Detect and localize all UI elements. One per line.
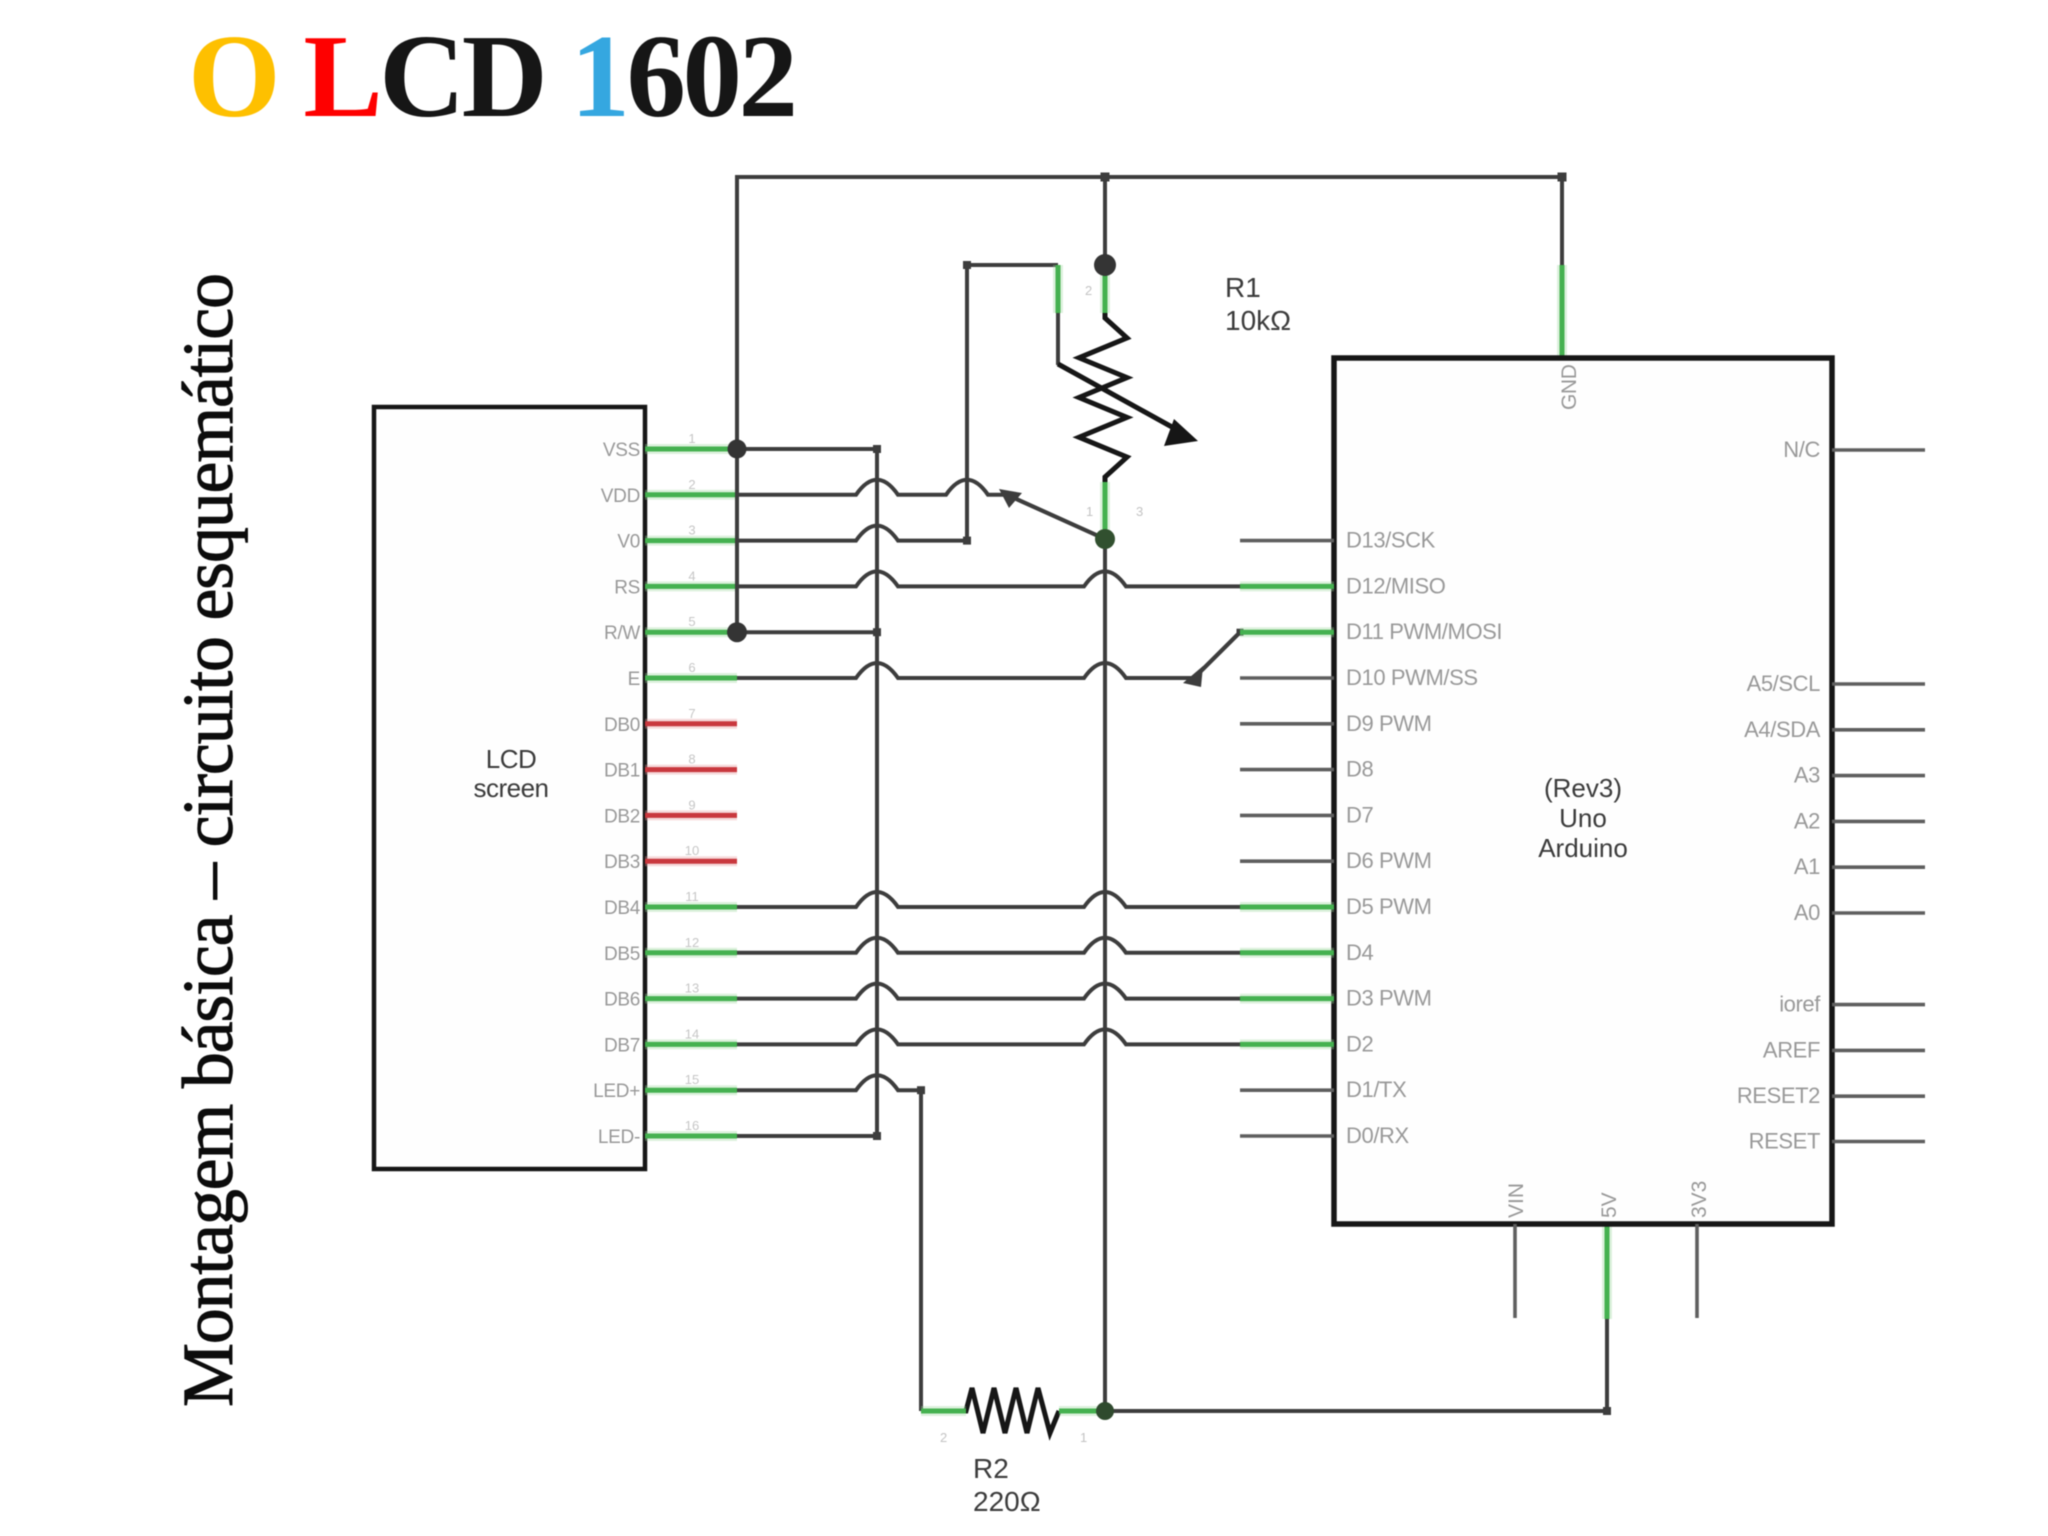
- svg-text:6: 6: [688, 660, 695, 675]
- wire: DB5 to D4 (hops both buses): [737, 938, 1240, 953]
- wire: Arduino GND stub riser (dark part): [1560, 177, 1564, 265]
- R1 pin numbers: [1085, 283, 1143, 519]
- junction: R2 right / 5V bus: [1096, 1402, 1114, 1420]
- net stub: Arduino GND pin (green): [1557, 265, 1567, 358]
- LCD pin 2 VDD (stub + label): [601, 477, 737, 507]
- svg-text:D0/RX: D0/RX: [1346, 1123, 1410, 1148]
- svg-text:1: 1: [1086, 504, 1093, 519]
- Arduino pin D9 PWM (left stub + label): [1240, 711, 1432, 736]
- svg-text:D11 PWM/MOSI: D11 PWM/MOSI: [1346, 619, 1502, 644]
- svg-text:D3 PWM: D3 PWM: [1346, 986, 1432, 1011]
- LCD pin 15 LED+ (stub + label): [593, 1072, 737, 1102]
- LCD pin 6 E (stub + label): [628, 660, 737, 690]
- Arduino pin ioref (right stub + label): [1779, 992, 1925, 1017]
- svg-text:9: 9: [688, 797, 695, 812]
- svg-text:2: 2: [688, 477, 695, 492]
- wire: pot R1 top to GND rail riser: [1103, 177, 1107, 265]
- LCD pin 8 DB1 (stub + label): [604, 752, 737, 782]
- wire: DB4 to D5 PWM (hops both buses): [737, 892, 1240, 907]
- R2 pin 1 stub (right, green): [1059, 1406, 1097, 1416]
- Arduino pin A1 (right stub + label): [1794, 854, 1925, 879]
- svg-text:VIN: VIN: [1505, 1183, 1528, 1218]
- svg-text:V0: V0: [617, 532, 640, 553]
- Arduino pin N/C (right stub + label): [1783, 437, 1925, 462]
- wire: R2 right junction to Arduino 5V pin: [1105, 1319, 1607, 1411]
- svg-text:Montagem básica – circuito esq: Montagem básica – circuito esquemático: [168, 273, 248, 1407]
- R1 wiper arrow: [1058, 364, 1198, 446]
- svg-text:LED-: LED-: [598, 1127, 640, 1148]
- svg-text:D2: D2: [1346, 1031, 1373, 1056]
- wire: GND vertical bus x=877: [875, 449, 879, 1136]
- svg-text:Arduino: Arduino: [1538, 833, 1628, 863]
- slide title "O LCD 1602": [188, 10, 798, 142]
- svg-text:DB6: DB6: [604, 990, 640, 1011]
- wire: E to D11 (hops both buses, diagonal jog up): [737, 632, 1240, 678]
- Arduino pin 3V3 (bottom stub + label): [1688, 1181, 1711, 1318]
- svg-text:10kΩ: 10kΩ: [1225, 305, 1291, 336]
- svg-text:3: 3: [688, 523, 695, 538]
- svg-text:VSS: VSS: [603, 440, 640, 461]
- svg-text:O LCD 1602: O LCD 1602: [188, 10, 798, 142]
- svg-text:D8: D8: [1346, 757, 1373, 782]
- svg-text:GND: GND: [1558, 364, 1581, 410]
- svg-text:D12/MISO: D12/MISO: [1346, 573, 1446, 598]
- wire: VDD to 5V node (hops GND bus and V0 riser): [737, 480, 1011, 495]
- net stub: Arduino 5V pin (green): [1602, 1224, 1612, 1319]
- junction: R/W / GND riser end: [727, 622, 747, 642]
- svg-text:DB0: DB0: [604, 715, 640, 736]
- LCD pin 13 DB6 (stub + label): [604, 981, 737, 1011]
- svg-text:2: 2: [1085, 283, 1092, 298]
- LCD pin 14 DB7 (stub + label): [604, 1026, 737, 1056]
- svg-text:R/W: R/W: [604, 623, 640, 644]
- wire: RS to D12/MISO (hops both buses): [737, 571, 1240, 586]
- potentiometer R1 10k body (zigzag): [1079, 311, 1127, 482]
- Arduino pin A2 (right stub + label): [1794, 808, 1925, 833]
- Arduino pin D5 PWM (left stub + label): [1240, 894, 1432, 919]
- wire: GND riser x=737 (VSS / R-W to top rail): [735, 175, 739, 632]
- svg-text:RESET2: RESET2: [1737, 1083, 1820, 1108]
- svg-text:DB7: DB7: [604, 1035, 640, 1056]
- Arduino pin D1/TX (left stub + label): [1240, 1077, 1407, 1102]
- svg-text:A5/SCL: A5/SCL: [1747, 671, 1821, 696]
- svg-text:DB1: DB1: [604, 761, 640, 782]
- Arduino pin D3 PWM (left stub + label): [1240, 986, 1432, 1011]
- svg-text:D4: D4: [1346, 940, 1373, 965]
- Arduino pin RESET2 (right stub + label): [1737, 1083, 1925, 1108]
- svg-text:D13/SCK: D13/SCK: [1346, 528, 1436, 553]
- svg-text:R2: R2: [973, 1453, 1009, 1484]
- svg-text:1: 1: [1080, 1430, 1087, 1445]
- wire: V0 to R1 wiper (hop GND bus, riser x=967, top run y=265): [737, 265, 1058, 541]
- svg-text:(Rev3): (Rev3): [1544, 773, 1622, 803]
- wire: 5V vertical bus x=1105 (R1 bottom to R2 right): [1103, 539, 1107, 1411]
- svg-text:screen: screen: [473, 773, 548, 803]
- svg-text:ioref: ioref: [1779, 992, 1821, 1017]
- svg-text:12: 12: [685, 935, 699, 950]
- LCD pin 12 DB5 (stub + label): [604, 935, 737, 965]
- Arduino pin D11 PWM/MOSI (left stub + label): [1240, 619, 1502, 644]
- svg-text:D5 PWM: D5 PWM: [1346, 894, 1432, 919]
- svg-text:AREF: AREF: [1763, 1037, 1820, 1062]
- wire: DB6 to D3 PWM (hops both buses): [737, 984, 1240, 999]
- LCD pin 11 DB4 (stub + label): [604, 889, 737, 919]
- Arduino Uno (Rev3) U1 body: [1334, 358, 1832, 1224]
- Arduino pin D12/MISO (left stub + label): [1240, 573, 1446, 598]
- svg-text:D9 PWM: D9 PWM: [1346, 711, 1432, 736]
- svg-text:LCD: LCD: [486, 744, 537, 774]
- Arduino pin D13/SCK (left stub + label): [1240, 528, 1436, 553]
- wire: VSS to GND bus: [737, 447, 877, 451]
- svg-text:D10 PWM/SS: D10 PWM/SS: [1346, 665, 1478, 690]
- svg-text:VDD: VDD: [601, 486, 640, 507]
- svg-text:DB2: DB2: [604, 806, 640, 827]
- wire: DB7 to D2 (hops both buses): [737, 1029, 1240, 1044]
- svg-text:A3: A3: [1794, 763, 1820, 788]
- svg-text:10: 10: [685, 843, 699, 858]
- Arduino pin D8 (left stub + label): [1240, 757, 1373, 782]
- Arduino pin A5/SCL (right stub + label): [1747, 671, 1925, 696]
- LCD pin 4 RS (stub + label): [614, 568, 737, 598]
- bendpoint squares: [873, 173, 1611, 1416]
- Arduino pin A0 (right stub + label): [1794, 900, 1925, 925]
- svg-text:R1: R1: [1225, 272, 1261, 303]
- svg-text:11: 11: [685, 889, 699, 904]
- Arduino pin 5V (bottom label): [1598, 1192, 1621, 1218]
- net stub: R1 wiper lead (green + dark): [1053, 265, 1063, 365]
- LCD pin 10 DB3 (stub + label): [604, 843, 737, 873]
- Arduino pin A4/SDA (right stub + label): [1744, 717, 1925, 742]
- R2 pin numbers: [940, 1430, 1087, 1445]
- Arduino pin D10 PWM/SS (left stub + label): [1240, 665, 1478, 690]
- vertical caption "Montagem basica - circuito esquematico": [168, 273, 248, 1407]
- wire: R/W to GND bus: [737, 630, 877, 634]
- svg-text:2: 2: [940, 1430, 947, 1445]
- Arduino pin D4 (left stub + label): [1240, 940, 1373, 965]
- svg-text:16: 16: [685, 1118, 699, 1133]
- svg-text:3V3: 3V3: [1688, 1181, 1711, 1218]
- svg-text:RESET: RESET: [1749, 1129, 1820, 1154]
- svg-text:RS: RS: [614, 577, 640, 598]
- svg-text:A0: A0: [1794, 900, 1820, 925]
- Arduino pin D6 PWM (left stub + label): [1240, 848, 1432, 873]
- svg-text:A1: A1: [1794, 854, 1820, 879]
- LCD pin 3 V0 (stub + label): [617, 523, 737, 553]
- svg-text:D7: D7: [1346, 802, 1373, 827]
- Arduino pin D7 (left stub + label): [1240, 802, 1373, 827]
- svg-text:15: 15: [685, 1072, 699, 1087]
- svg-text:D1/TX: D1/TX: [1346, 1077, 1407, 1102]
- Arduino pin AREF (right stub + label): [1763, 1037, 1925, 1062]
- LCD pin 1 VSS (stub + label): [603, 431, 737, 461]
- wire: VDD diagonal into 5V junction with arrowhead: [999, 489, 1105, 539]
- wire: GND net top rail from VSS riser to Arduino GND: [737, 175, 1562, 179]
- svg-text:N/C: N/C: [1783, 437, 1820, 462]
- svg-text:220Ω: 220Ω: [973, 1486, 1041, 1517]
- svg-text:A2: A2: [1794, 808, 1820, 833]
- label R2 220: [973, 1453, 1041, 1517]
- svg-text:7: 7: [688, 706, 695, 721]
- svg-text:E: E: [628, 669, 640, 690]
- svg-text:A4/SDA: A4/SDA: [1744, 717, 1821, 742]
- R1 pin 1 stub (top, green): [1100, 265, 1110, 313]
- Arduino pin A3 (right stub + label): [1794, 763, 1925, 788]
- svg-text:D6 PWM: D6 PWM: [1346, 848, 1432, 873]
- LCD pin 5 R/W (stub + label): [604, 614, 737, 644]
- R1 pin 3 stub (bottom, green): [1100, 482, 1110, 539]
- svg-text:DB3: DB3: [604, 852, 640, 873]
- Arduino pin RESET (right stub + label): [1749, 1129, 1925, 1154]
- LCD pin 9 DB2 (stub + label): [604, 797, 737, 827]
- LCD1602 module U2 body: [374, 407, 645, 1169]
- LCD pin 16 LED- (stub + label): [598, 1118, 737, 1148]
- Arduino pin D2 (left stub + label): [1240, 1031, 1373, 1056]
- svg-text:DB5: DB5: [604, 944, 640, 965]
- svg-text:13: 13: [685, 981, 699, 996]
- Arduino pin VIN (bottom stub + label): [1505, 1183, 1528, 1318]
- junction: VSS / GND riser: [728, 440, 747, 459]
- svg-text:5: 5: [688, 614, 695, 629]
- svg-text:LED+: LED+: [593, 1081, 640, 1102]
- wire: LED+ to R2 left (hop GND bus, corner, drop to bottom): [737, 1075, 921, 1411]
- svg-text:14: 14: [685, 1026, 699, 1041]
- svg-text:1: 1: [688, 431, 695, 446]
- svg-text:8: 8: [688, 752, 695, 767]
- junction: R1 bottom / 5V node: [1095, 529, 1115, 549]
- svg-text:4: 4: [688, 568, 695, 583]
- wire: LED- to GND bus: [737, 1134, 877, 1138]
- arrowhead at E-wire diagonal foot: [1183, 666, 1203, 687]
- resistor R2 220 body (zigzag): [921, 1388, 1059, 1433]
- LCD pin 7 DB0 (stub + label): [604, 706, 737, 736]
- R2 pin 2 stub (left, green): [921, 1406, 966, 1416]
- svg-text:3: 3: [1136, 504, 1143, 519]
- svg-text:Uno: Uno: [1559, 803, 1607, 833]
- svg-text:5V: 5V: [1598, 1192, 1621, 1218]
- label R1 10k: [1225, 272, 1291, 336]
- Arduino pin D0/RX (left stub + label): [1240, 1123, 1410, 1148]
- Arduino pin GND (top label): [1558, 364, 1581, 410]
- junction: R1 top / GND rail: [1094, 254, 1116, 276]
- svg-text:DB4: DB4: [604, 898, 641, 919]
